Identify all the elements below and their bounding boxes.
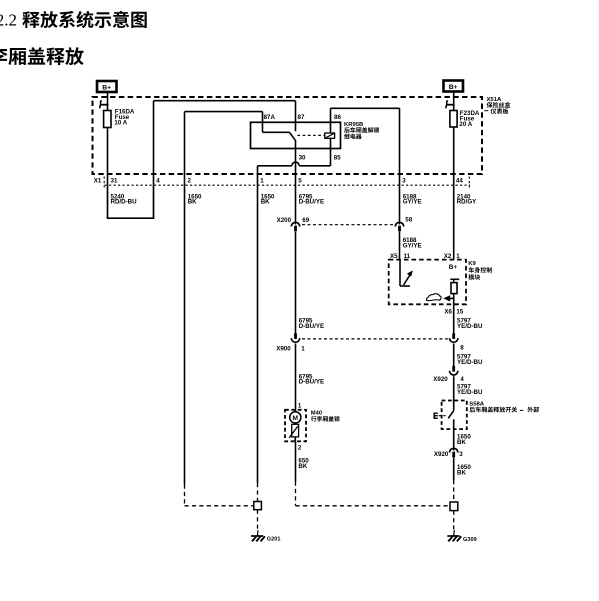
ground label G201 xyxy=(267,537,281,543)
relay internal: 87 stub xyxy=(295,122,297,131)
wire pin 4 to relay 87 xyxy=(154,101,296,186)
svg-text:X200: X200 xyxy=(277,217,292,224)
svg-text:B+: B+ xyxy=(449,84,458,91)
wire 5797 YE/D-BU X920 to S58A xyxy=(453,376,455,411)
relay coil xyxy=(325,133,335,138)
svg-text:1: 1 xyxy=(298,403,302,410)
svg-text:D-BU/YE: D-BU/YE xyxy=(299,199,324,206)
svg-text:87A: 87A xyxy=(264,114,276,121)
X900 connector dashed link xyxy=(302,338,448,340)
wire B+ to fuse F23DA xyxy=(453,92,455,111)
wire 6188 GY/YE pin3 to X200-58 xyxy=(399,185,401,224)
BCM K9 pin labels X2 1 xyxy=(444,253,461,260)
svg-text:M: M xyxy=(293,415,299,422)
svg-text:15: 15 xyxy=(456,309,463,316)
relay pin label 30 xyxy=(299,155,306,162)
dashed run pin1 wire to G201 junction xyxy=(257,483,259,502)
svg-text:K9: K9 xyxy=(468,261,476,267)
wire 6795 D-BU/YE X200 to X900 xyxy=(295,232,297,339)
battery clip symbol (right) xyxy=(446,101,455,109)
svg-text:86: 86 xyxy=(334,114,341,121)
svg-text:YE/D-BU: YE/D-BU xyxy=(457,323,483,330)
motor M40 dashed box xyxy=(285,410,306,442)
BCM K9 pin labels X5 11 xyxy=(390,253,411,260)
relay internal: 87A contact arm xyxy=(263,122,290,132)
connector label X200 69 xyxy=(277,217,310,224)
ground G201 xyxy=(251,530,265,541)
wire relay 85 to pin 1 (with hop) xyxy=(258,149,331,186)
svg-text:8: 8 xyxy=(460,344,464,351)
svg-text:B+: B+ xyxy=(449,264,458,271)
BCM pin labels X6 15 xyxy=(444,309,463,316)
relay internal: switch blade 30-87A xyxy=(290,132,296,148)
svg-text:31: 31 xyxy=(111,177,118,184)
wire label 5240 RD/D-BU xyxy=(111,193,138,205)
wire 2140 RD/GY pin44 to K9 X2-1 xyxy=(453,185,455,259)
fuse F16DA value label xyxy=(114,109,135,127)
svg-text:30: 30 xyxy=(299,155,306,162)
vehicle icon xyxy=(427,294,442,301)
inline connector X920 pin 3 xyxy=(450,448,458,457)
svg-text:YE/D-BU: YE/D-BU xyxy=(457,359,483,366)
pin 2 label xyxy=(188,177,192,184)
fuse block label X51A 保险丝盒 - 仪表板 xyxy=(484,97,510,114)
ground G309 xyxy=(447,530,461,541)
svg-text:58: 58 xyxy=(405,217,412,224)
wire label 1650 BK (upper) xyxy=(457,434,471,446)
wire label 6188 GY/YE xyxy=(403,193,422,205)
connector label X900 1 xyxy=(276,345,305,352)
inline connector X200 pin 69 xyxy=(291,222,299,231)
X200 connector dashed link xyxy=(302,224,394,226)
wire 1650 BK X920-3 down xyxy=(453,458,455,481)
battery clip symbol (left) xyxy=(100,101,109,109)
wire label 1650 BK xyxy=(261,193,275,205)
svg-text:D-BU/YE: D-BU/YE xyxy=(299,323,324,330)
svg-text:X1: X1 xyxy=(94,177,102,184)
wire 5797 YE/D-BU K9 to connector 8 xyxy=(453,304,455,338)
wire relay 86 to pin 3 xyxy=(331,108,400,185)
wire pin 2 to relay 87A xyxy=(185,112,263,186)
dashed run junction to G309 xyxy=(453,511,455,530)
dashed run 650 BK to G309 junction xyxy=(296,482,451,506)
wire 5797 YE/D-BU to X920-4 xyxy=(453,344,455,372)
wire label 6795 D-BU/YE xyxy=(299,193,324,205)
svg-text:2: 2 xyxy=(298,445,302,452)
svg-text:RD/D-BU: RD/D-BU xyxy=(111,199,138,206)
svg-text:BK: BK xyxy=(261,199,270,206)
connector pin 58 label xyxy=(405,217,412,224)
dashed run pin2 wire to G201 junction xyxy=(185,485,254,506)
splice junction for G201 xyxy=(254,502,262,510)
pin 44 label xyxy=(456,177,463,184)
svg-text:BK: BK xyxy=(457,469,466,476)
svg-text:44: 44 xyxy=(456,177,463,184)
relay internal: actuation dashes xyxy=(298,134,325,136)
relay pin label 87 xyxy=(298,114,305,121)
svg-text:20 A: 20 A xyxy=(459,121,472,128)
svg-text:RD/GY: RD/GY xyxy=(457,199,477,206)
battery feed B+ (left) xyxy=(97,81,117,92)
svg-text:X920: X920 xyxy=(434,451,449,458)
subtitle 行李厢盖释放 xyxy=(0,47,84,65)
svg-text:BK: BK xyxy=(457,439,466,446)
pin 5 label xyxy=(298,177,302,184)
svg-text:BK: BK xyxy=(298,463,307,470)
svg-text:2: 2 xyxy=(188,177,192,184)
svg-text:2.2: 2.2 xyxy=(0,10,17,29)
BCM internal B+ label xyxy=(449,264,458,271)
svg-text:4: 4 xyxy=(156,177,160,184)
svg-text:YE/D-BU: YE/D-BU xyxy=(457,389,483,396)
body control module K9 dashed box xyxy=(389,260,466,305)
switch S58A dashed box xyxy=(442,401,467,430)
svg-text:5: 5 xyxy=(298,177,302,184)
svg-text:3: 3 xyxy=(402,177,406,184)
fuse F23DA value label xyxy=(459,110,480,128)
svg-text:87: 87 xyxy=(298,114,305,121)
motor M40 circle xyxy=(290,410,301,425)
inline connector X900 pin 1 xyxy=(291,333,299,342)
inline connector X200 pin 58 xyxy=(395,222,403,231)
svg-text:KR95B: KR95B xyxy=(344,122,363,128)
svg-text:85: 85 xyxy=(334,155,341,162)
BCM internal input wire and arrow (pin 11) xyxy=(400,260,412,286)
wire 1650 BK pin2 down xyxy=(184,185,186,484)
svg-text:BK: BK xyxy=(188,199,197,206)
connector label X920 3 xyxy=(434,451,463,458)
connector label X920 4 xyxy=(433,376,464,383)
switch actuator E symbol xyxy=(434,413,447,419)
wire 6795 D-BU/YE pin5 to X200 xyxy=(295,185,297,224)
svg-text:1: 1 xyxy=(301,345,305,352)
wire label 6188 GY/YE (lower) xyxy=(403,237,422,249)
motor M40 label 行李厢盖锁 xyxy=(311,411,340,422)
svg-text:3: 3 xyxy=(459,451,463,458)
pin 31 label xyxy=(111,177,118,184)
inline connector pin 8 xyxy=(450,333,458,342)
relay KR95B label 后车厢盖解锁继电器 xyxy=(344,122,379,139)
connector X1 boundary dashed line xyxy=(104,177,470,188)
svg-text:M40: M40 xyxy=(311,411,322,417)
relay pin label 87A xyxy=(264,114,276,121)
splice junction for G309 xyxy=(450,502,458,511)
relay pin label 85 xyxy=(334,155,341,162)
svg-text:X900: X900 xyxy=(276,345,291,352)
wire label 5797 YE/D-BU (3) xyxy=(457,384,483,396)
dashed run 1650 BK to G309 junction xyxy=(453,480,455,502)
pin 1 label xyxy=(260,177,264,184)
svg-text:D-BU/YE: D-BU/YE xyxy=(299,379,324,386)
svg-text:X920: X920 xyxy=(433,376,448,383)
fuse block X51A dashed enclosure xyxy=(93,97,483,174)
wire label 2140 RD/GY xyxy=(457,193,477,205)
wire fuse F23DA to pin 44 xyxy=(453,127,455,185)
title text 释放系统示意图 xyxy=(22,11,146,28)
pin 3 label xyxy=(402,177,406,184)
wire label 6795 D-BU/YE (lower) xyxy=(299,373,324,385)
wire fuse F16DA to pin 31 xyxy=(107,128,109,186)
connector label X1 xyxy=(94,177,102,184)
latch actuator symbol xyxy=(289,424,298,441)
svg-text:G201: G201 xyxy=(267,537,281,543)
svg-text:G309: G309 xyxy=(463,537,477,543)
wire 6188 GY/YE X200 to K9 pin 11 xyxy=(399,232,401,260)
BCM label K9 车身控制模块 xyxy=(468,261,492,280)
relay pin label 86 xyxy=(334,114,341,121)
svg-text:B+: B+ xyxy=(102,85,111,92)
wire label 5797 YE/D-BU (2) xyxy=(457,353,483,365)
title section number 2.2 xyxy=(0,10,17,29)
svg-text:69: 69 xyxy=(302,217,309,224)
battery feed B+ (right) xyxy=(444,81,464,92)
dashed run junction to G201 xyxy=(257,510,259,530)
wire relay 30 to pin 5 xyxy=(295,149,297,186)
wire 1650 BK S58A to X920-3 xyxy=(453,429,455,450)
svg-text:GY/YE: GY/YE xyxy=(403,199,422,206)
pin 4 label xyxy=(156,177,160,184)
svg-text:X51A: X51A xyxy=(487,97,502,103)
wire label 5797 YE/D-BU (1) xyxy=(457,318,483,330)
svg-text:1: 1 xyxy=(260,177,264,184)
switch S58A blade xyxy=(448,411,454,429)
ground label G309 xyxy=(463,537,477,543)
wire label 650 BK xyxy=(298,457,309,469)
svg-text:X6: X6 xyxy=(444,309,452,316)
wire B+ to fuse F16DA xyxy=(107,92,109,111)
BCM internal pull-up resistor xyxy=(450,279,459,304)
M40 pin 2 label xyxy=(298,445,302,452)
wire 5240 RD/D-BU loop pin31 to pin4 xyxy=(108,185,154,219)
wire label 6795 D-BU/YE (mid) xyxy=(299,318,324,330)
inline connector X920 pin 4 xyxy=(450,366,458,375)
relay internal: coil wires to 86 and 85 xyxy=(330,122,332,148)
fuse F16DA 10A xyxy=(104,111,111,128)
connector pin 8 label xyxy=(460,344,464,351)
wire label 1650 BK xyxy=(188,193,202,205)
svg-text:4: 4 xyxy=(460,376,464,383)
M40 pin 1 label xyxy=(298,403,302,410)
wire 1650 BK pin1 down xyxy=(257,185,259,483)
svg-text:S58A: S58A xyxy=(469,401,484,407)
svg-text:GY/YE: GY/YE xyxy=(403,242,422,249)
relay KR95B box xyxy=(251,122,341,148)
wire label 1650 BK (lower) xyxy=(457,464,471,476)
BCM internal arrow to vehicle icon xyxy=(444,296,454,301)
fuse F23DA 20A xyxy=(450,111,457,128)
switch S58A label 后车厢盖释放开关 - 外部 xyxy=(469,401,539,412)
wire 650 BK M40 to dashed run xyxy=(295,441,297,481)
wire 6795 D-BU/YE X900 to M40 xyxy=(295,344,297,410)
svg-text:10 A: 10 A xyxy=(114,119,127,126)
